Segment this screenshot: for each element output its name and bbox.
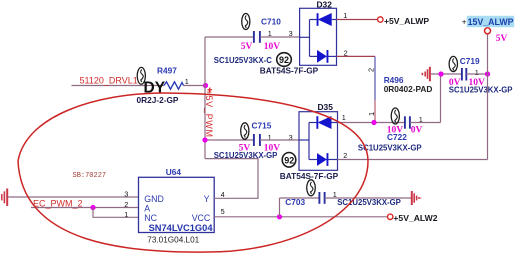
wire D35 pin1 to C722: [338, 122, 405, 124]
node junction EC_PWM_2: [90, 205, 95, 210]
diode pack D32 body: [300, 8, 337, 65]
svg-text:0R2J-2-GP: 0R2J-2-GP: [137, 95, 179, 105]
wire C719 right to +15V riser: [466, 73, 487, 75]
stamp near C722: [391, 108, 399, 124]
capacitor C719: [462, 68, 466, 81]
capacitor C715: [254, 134, 260, 146]
wire 51120_DRVL1 input: [72, 85, 206, 87]
svg-text:R497: R497: [157, 66, 177, 76]
svg-text:C722: C722: [387, 132, 407, 142]
wire C715 to D35 pin3: [260, 139, 299, 141]
stamp near R497: [137, 67, 145, 84]
terminal +5V_ALW2: [388, 214, 393, 219]
svg-text:1: 1: [268, 133, 272, 142]
svg-text:Y: Y: [204, 194, 210, 204]
svg-text:SB:70227: SB:70227: [73, 172, 107, 180]
svg-text:0V: 0V: [411, 125, 423, 135]
wire D32 pin1 to +5V_ALWP: [337, 19, 378, 21]
svg-text:SC1U25V3KX-GP: SC1U25V3KX-GP: [449, 86, 513, 95]
stamp 92 near BAT54S bottom: [282, 153, 296, 168]
svg-text:D32: D32: [317, 0, 333, 9]
wire +5V_PWM to C715: [205, 139, 254, 141]
stamp 92 near BAT54S top: [277, 53, 292, 67]
svg-text:5V: 5V: [496, 34, 508, 44]
svg-text:1: 1: [475, 68, 479, 77]
svg-text:GND: GND: [144, 194, 164, 204]
highlight +15V_ALWP: [467, 16, 514, 27]
svg-text:3: 3: [289, 133, 293, 142]
ground symbol EC_PWM (rotated): [2, 189, 7, 207]
svg-text:15V_ALWP: 15V_ALWP: [468, 17, 514, 27]
wire C722 right: [410, 122, 441, 124]
wire D35 pin2 to +15V riser: [338, 159, 488, 161]
svg-text:A: A: [144, 204, 150, 214]
svg-text:BAT54S-7F-GP: BAT54S-7F-GP: [260, 65, 319, 75]
svg-text:C703: C703: [285, 197, 305, 207]
svg-text:D35: D35: [318, 102, 334, 112]
svg-text:0R0402-PAD: 0R0402-PAD: [384, 84, 433, 94]
annotation red ellipse: [18, 93, 368, 252]
wire +5V_PWM riser: [204, 37, 206, 159]
node junction C715 tap: [202, 137, 207, 142]
diode D35 bottom (cathode right): [317, 153, 328, 166]
wire C703 riser: [279, 198, 281, 217]
svg-text:VCC: VCC: [192, 213, 211, 223]
svg-text:92: 92: [284, 155, 294, 165]
node junction C703 tap: [277, 214, 282, 219]
wire C703 right to pad: [325, 197, 412, 199]
capacitor C722: [405, 116, 410, 128]
svg-text:C710: C710: [261, 16, 281, 26]
svg-text:NC: NC: [144, 213, 157, 223]
wire +15V_ALWP riser: [487, 34, 489, 160]
svg-text:51120_DRVL1: 51120_DRVL1: [80, 76, 138, 86]
wire Y output: [205, 159, 258, 199]
resistor R1 R497: [164, 82, 184, 89]
terminal +15V_ALWP: [485, 28, 491, 34]
wire C722 riser: [440, 74, 442, 123]
svg-text:+: +: [462, 18, 467, 27]
node junction R497/+5V_PWM: [203, 83, 208, 88]
pad symbol R496: [422, 67, 430, 82]
diode D35 top (cathode left): [316, 116, 331, 129]
wire D32 pin2: [337, 55, 376, 57]
svg-text:5: 5: [221, 207, 225, 216]
stamp near C710: [242, 14, 250, 30]
node junction D32.2/D35.1: [371, 120, 376, 125]
pad symbol C703 (mirrored): [412, 191, 421, 205]
node junction +15V rail: [485, 71, 490, 76]
net label +15V_ALWP: [462, 17, 514, 27]
wire pad to junction: [431, 73, 462, 75]
wire GND to U64 pin3: [8, 196, 139, 198]
svg-text:73.01G04.L01: 73.01G04.L01: [147, 235, 199, 244]
svg-text:1: 1: [124, 210, 128, 219]
svg-text:4: 4: [221, 190, 225, 199]
stamp near C719: [449, 56, 457, 71]
svg-text:2: 2: [124, 200, 128, 209]
stamp near C703: [307, 180, 316, 196]
terminal +5V_ALWP: [378, 17, 383, 22]
svg-text:92: 92: [279, 55, 289, 65]
wire D32 pin2 riser: [374, 56, 376, 122]
svg-text:1: 1: [185, 77, 189, 86]
diode D32 bottom (cathode right): [317, 50, 328, 63]
capacitor C703: [319, 192, 324, 204]
svg-text:C719: C719: [460, 56, 480, 66]
svg-text:+5V_ALW2: +5V_ALW2: [393, 213, 437, 223]
svg-text:1: 1: [342, 113, 346, 122]
svg-text:SC1U25V3KX-C: SC1U25V3KX-C: [214, 56, 272, 65]
diode pack D35 body: [299, 112, 338, 171]
svg-text:1: 1: [343, 11, 347, 20]
capacitor C710: [254, 31, 260, 43]
polarity plus mark: [208, 88, 213, 93]
svg-text:EC_PWM_2: EC_PWM_2: [33, 198, 83, 208]
svg-text:3: 3: [124, 189, 128, 198]
wire EC_PWM_2 drop to pin1: [93, 208, 139, 218]
svg-text:10V: 10V: [264, 42, 281, 52]
wire C703 left: [280, 197, 320, 199]
svg-text:U64: U64: [166, 167, 182, 177]
wire EC_PWM_2 to U64 pin2: [31, 207, 139, 209]
svg-text:SN74LVC1G04: SN74LVC1G04: [149, 223, 214, 233]
svg-text:+5V_ALWP: +5V_ALWP: [384, 16, 429, 26]
ic U64 body: [139, 177, 215, 232]
wire to C710: [205, 36, 254, 38]
svg-text:SC1U25V3KX-GP: SC1U25V3KX-GP: [358, 143, 422, 152]
node junction C719 left: [438, 71, 443, 76]
svg-text:5V: 5V: [241, 42, 253, 52]
svg-text:2: 2: [343, 151, 347, 160]
wire C710 to D32 pin3: [260, 36, 300, 38]
stamp near C715: [241, 123, 249, 139]
wire VCC to +5V_ALW2: [214, 216, 387, 218]
svg-text:BAT54S-7F-GP: BAT54S-7F-GP: [280, 171, 339, 181]
diode D32 top (cathode left): [317, 13, 332, 26]
svg-text:1: 1: [367, 112, 376, 116]
svg-text:C715: C715: [252, 120, 272, 130]
svg-text:2: 2: [367, 68, 376, 72]
